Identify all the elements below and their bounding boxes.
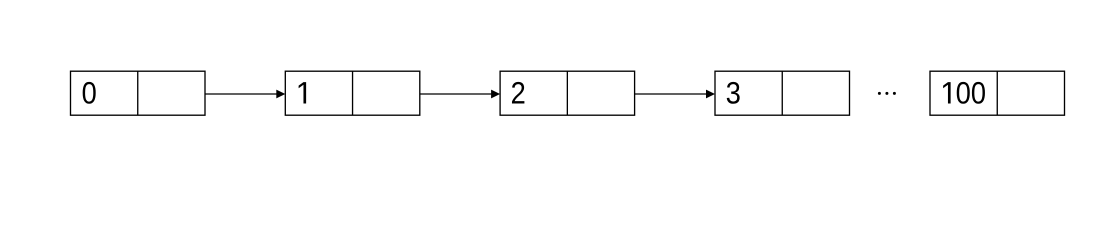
wire arrow 0 to 1 <box>205 90 285 99</box>
node 100 label <box>943 82 985 104</box>
node 3 label <box>727 82 740 104</box>
ellipsis dots <box>878 92 896 95</box>
node 2 box <box>500 71 634 115</box>
node 3 box <box>715 71 850 115</box>
node 2 label <box>512 82 524 104</box>
wire arrow 2 to 3 <box>635 90 715 99</box>
node 1 label <box>299 82 306 103</box>
wire arrow 1 to 2 <box>420 90 500 99</box>
node 1 box <box>285 71 420 115</box>
node 0 label <box>83 82 96 104</box>
node 0 box <box>71 71 206 115</box>
node 100 box <box>930 71 1065 115</box>
